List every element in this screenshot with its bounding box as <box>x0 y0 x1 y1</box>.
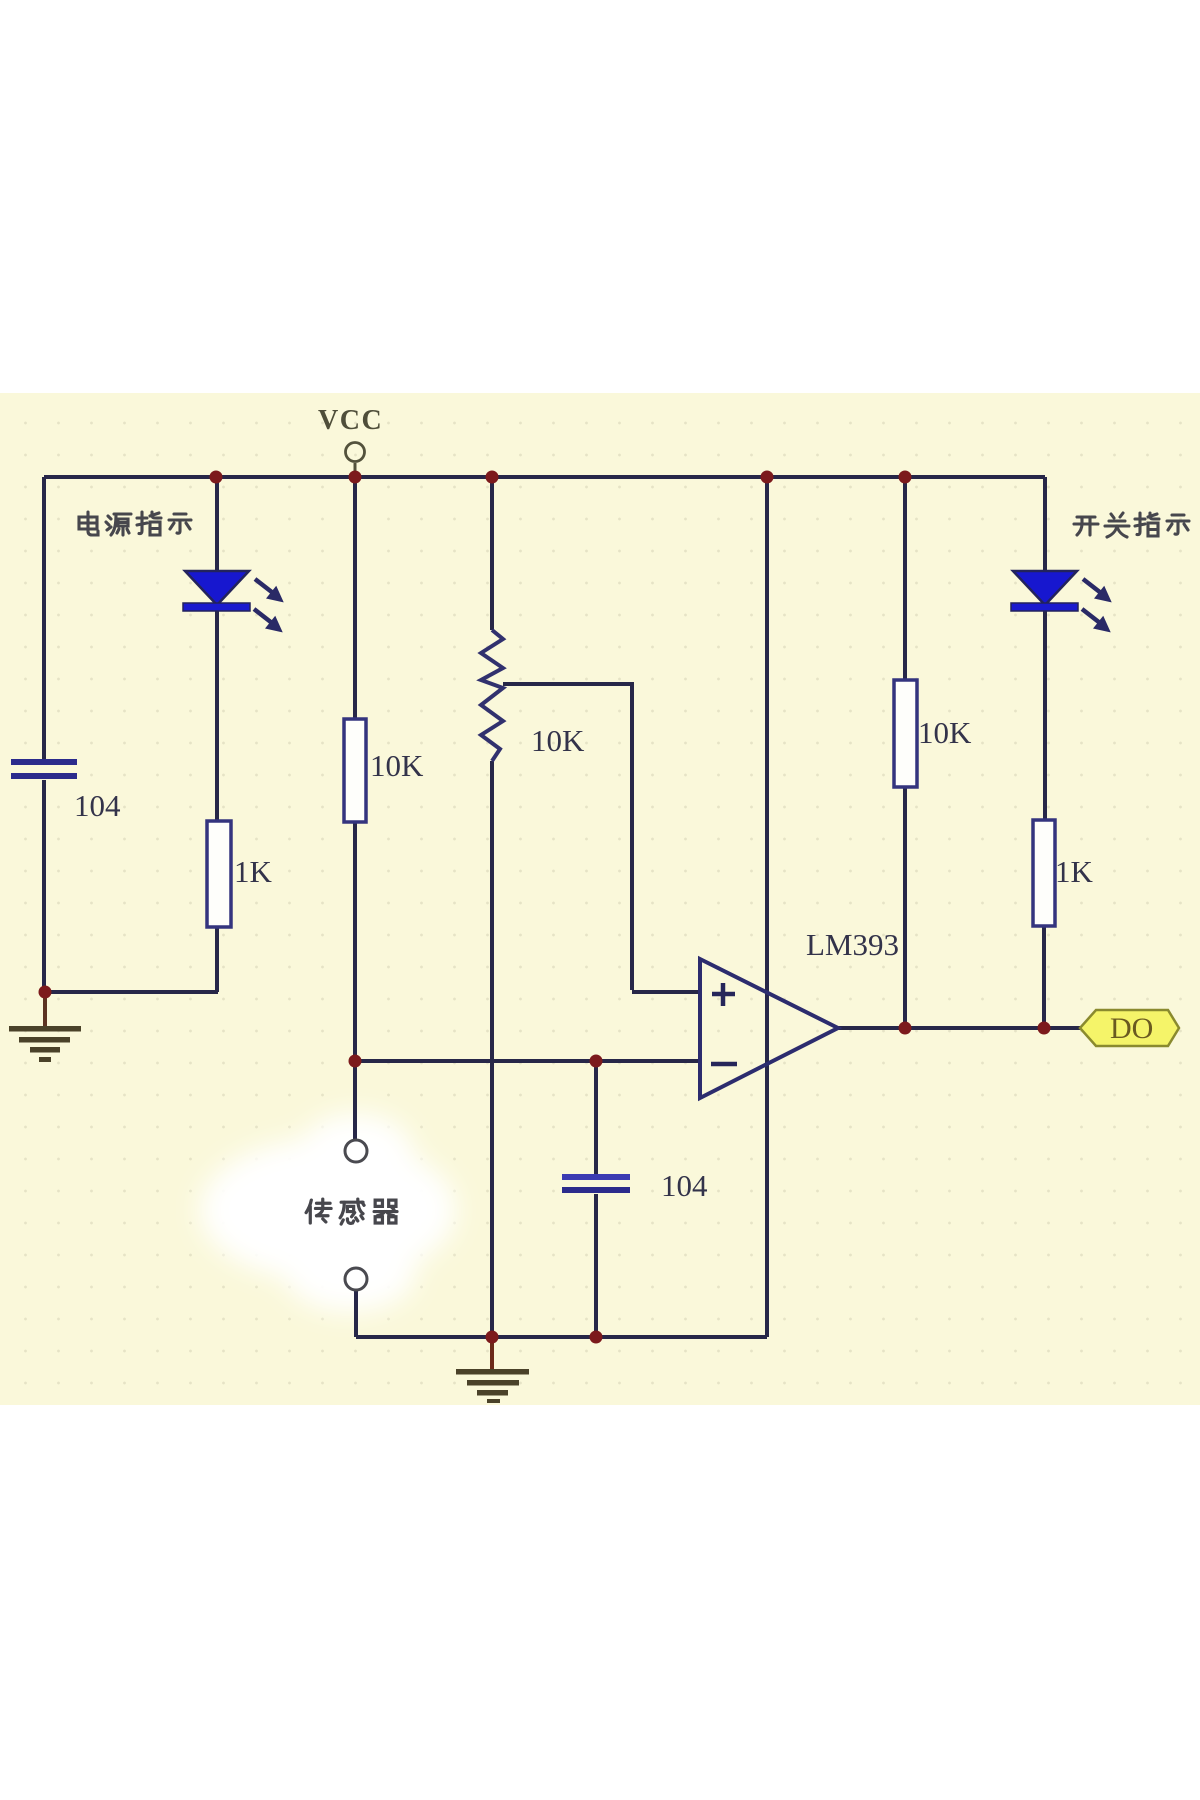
svg-text:10K: 10K <box>370 748 424 783</box>
svg-text:1K: 1K <box>1055 854 1094 889</box>
svg-text:1K: 1K <box>234 854 273 889</box>
svg-text:LM393: LM393 <box>806 927 899 962</box>
svg-text:10K: 10K <box>531 723 585 758</box>
svg-text:104: 104 <box>661 1168 708 1203</box>
svg-text:104: 104 <box>74 788 121 823</box>
svg-text:10K: 10K <box>918 715 972 750</box>
svg-text:VCC: VCC <box>318 405 383 436</box>
svg-text:DO: DO <box>1110 1012 1153 1045</box>
